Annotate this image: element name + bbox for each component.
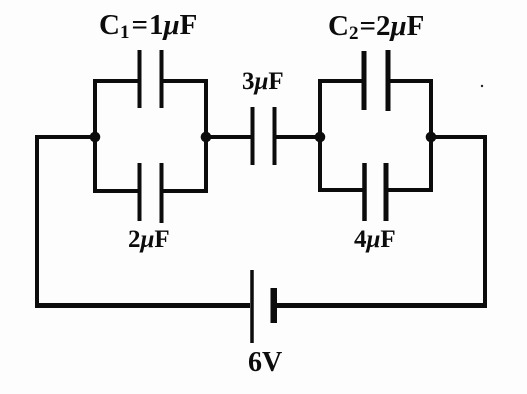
capacitor 2uF plates [140,163,162,223]
wire: left block bottom-right segment [161,189,208,193]
wire: node B to 3uF left plate [206,135,251,139]
battery 6V long plate (positive) [250,270,254,343]
wire: bottom left segment to battery [35,303,250,308]
svg-text:4μF: 4μF [354,226,396,253]
wire: bottom right segment from battery [277,303,487,308]
wire: left rail to node A [35,135,95,139]
wire: node D to right rail [431,135,487,139]
capacitor C1 plates (1uF) [140,50,162,108]
wire: 3uF right plate to node C [277,135,321,139]
wire: right block left side [318,79,322,192]
node D junction dot [426,132,437,143]
wire: right block bottom-right segment [386,188,433,192]
svg-text:6V: 6V [248,347,282,378]
node B junction dot [201,132,212,143]
wire: left block top-left segment [93,79,140,83]
wire: left block right side [204,79,208,193]
wire: right rail vertical [483,135,487,308]
wire: right block bottom-left segment [318,188,364,192]
wire: left block top-right segment [161,79,208,83]
svg-text:2μF: 2μF [128,226,170,253]
wire: left block left side [93,79,97,193]
node C junction dot [315,132,326,143]
capacitor 3uF plates [253,107,275,165]
wire: right block right side [429,79,433,192]
wire: right block top-left segment [318,79,364,83]
capacitor C2 plates (2uF) [364,50,388,111]
speck artifact [481,85,483,87]
svg-text:3μF: 3μF [242,68,284,95]
battery 6V short thick plate (negative) [271,288,278,323]
wire: right block top-right segment [388,79,433,83]
svg-text:C2=2μF: C2=2μF [328,10,424,44]
svg-text:C1=1μF: C1=1μF [99,9,197,43]
wire: left block bottom-left segment [93,189,140,193]
wire: left rail vertical [35,135,39,308]
capacitor 4uF plates [365,163,387,221]
node A junction dot [90,132,101,143]
